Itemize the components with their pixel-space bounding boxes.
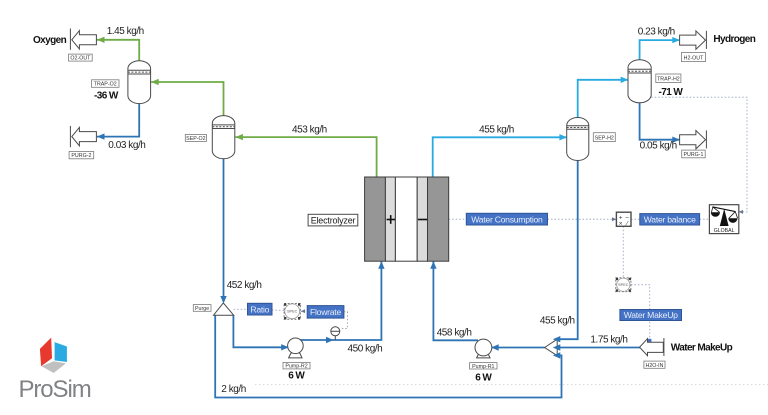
label box Electrolyzer: [308, 214, 358, 226]
label box TRAP-O2: [92, 80, 120, 88]
svg-text:Water Consumption: Water Consumption: [471, 214, 543, 224]
ProSim logo: [19, 338, 91, 403]
constraint dotted line Water Consumption to operator: [548, 218, 617, 220]
constraint dotted line SPEC to Flowrate: [300, 310, 307, 312]
svg-text:TRAP-H2: TRAP-H2: [657, 77, 680, 83]
wire: green O2 gas TRAP-O2 to O2-OUT: [97, 40, 139, 61]
arrow blue into mixer middle port: [553, 344, 561, 350]
anode plus sign: [387, 219, 395, 221]
label box Purge: [193, 305, 211, 312]
svg-text:450 kg/h: 450 kg/h: [348, 343, 383, 354]
blue label Flowrate: [307, 306, 344, 319]
svg-text:452 kg/h: 452 kg/h: [227, 280, 262, 291]
svg-text:455 kg/h: 455 kg/h: [540, 316, 575, 327]
svg-text:Ratio: Ratio: [250, 304, 269, 314]
constraint endpoint handle: [648, 339, 651, 342]
svg-text:Water MakeUp: Water MakeUp: [671, 342, 733, 353]
wire: blue 0.03 kg/h TRAP-O2 to PURG-2: [97, 104, 139, 137]
svg-text:0.03 kg/h: 0.03 kg/h: [108, 140, 145, 151]
svg-text:SEP-H2: SEP-H2: [595, 135, 614, 141]
constraint dotted line TRAP-H2 to GLOBAL (right loop): [651, 97, 747, 212]
left hanger: [712, 207, 720, 212]
svg-text:O2-OUT: O2-OUT: [70, 56, 91, 62]
SPEC module 1: [284, 303, 300, 319]
right hanger: [729, 212, 738, 219]
constraint dotted line electrolyzer to Water Consumption: [449, 218, 467, 220]
inlet icon H2O-IN: [640, 338, 664, 356]
outlet icon PURG-2: [70, 126, 96, 147]
constraint dotted line SPEC2 to Water MakeUp feed: [631, 285, 650, 341]
arrow blue into PURG-2: [97, 133, 105, 139]
svg-text:Oxygen: Oxygen: [33, 35, 67, 46]
outlet icon H2-OUT: [680, 31, 707, 50]
wire: blue Pump-R2 outlet to electrolyzer: [300, 262, 381, 341]
wire: blue 458 kg/h Pump-R1 outlet to electrolyzer: [433, 262, 478, 341]
left pan: [711, 212, 720, 217]
beam: [713, 207, 736, 212]
constraint dotted line Ratio to SPEC: [272, 309, 284, 312]
svg-text:Hydrogen: Hydrogen: [713, 34, 755, 45]
constraint dotted line operator to Water balance: [631, 218, 640, 220]
svg-text:Flowrate: Flowrate: [310, 307, 341, 317]
wire: cyan H2 gas SEP-H2 to TRAP-H2: [578, 80, 628, 118]
constraint dotted line Water balance to GLOBAL: [700, 218, 710, 220]
label box O2-OUT: [69, 54, 93, 62]
svg-text:Purge: Purge: [195, 306, 209, 312]
label box Pump-R2: [283, 362, 310, 369]
svg-text:2 kg/h: 2 kg/h: [221, 384, 246, 395]
svg-text:Pump-R2: Pump-R2: [285, 364, 307, 370]
label box H2-OUT: [681, 53, 705, 62]
arrow blue into splitter: [220, 296, 226, 304]
arrow blue into electrolyzer right: [430, 261, 436, 269]
wire: blue mixer to Pump-R1: [491, 347, 545, 349]
svg-text:Pump-R1: Pump-R1: [472, 364, 494, 370]
svg-text:453 kg/h: 453 kg/h: [292, 124, 327, 135]
svg-text:6 W: 6 W: [288, 371, 305, 382]
splitter Purge (triangle): [214, 303, 234, 315]
svg-text:GLOBAL: GLOBAL: [714, 228, 735, 234]
svg-text:SPEC: SPEC: [287, 310, 298, 314]
cathode minus sign: [418, 219, 427, 221]
label box Pump-R1: [470, 363, 497, 370]
constraint dotted line Flowrate to flow sensor: [340, 312, 347, 329]
constraint dotted line splitter to Ratio: [234, 308, 248, 310]
outlet icon O2-OUT: [70, 29, 96, 50]
svg-text:Water MakeUp: Water MakeUp: [624, 310, 678, 320]
label box PURG-2: [69, 152, 94, 160]
page boundary dotted line: [255, 384, 768, 386]
electrolyzer U1: [365, 177, 449, 261]
GLOBAL balance scale icon: [709, 205, 738, 234]
arrow blue into Pump-R2: [281, 344, 289, 350]
arrow green into O2-OUT: [97, 37, 105, 43]
SPEC module 2: [616, 278, 631, 292]
svg-text:H2O-IN: H2O-IN: [646, 363, 664, 369]
label box TRAP-H2: [656, 74, 681, 83]
vessel SEP-O2: [212, 116, 235, 159]
right pan: [728, 218, 737, 223]
pump Pump-R2: [288, 338, 304, 358]
arrow green into SEP-O2: [235, 134, 243, 140]
svg-text:0.05 kg/h: 0.05 kg/h: [640, 141, 677, 152]
svg-text:SEP-O2: SEP-O2: [186, 136, 205, 142]
svg-text:1.75 kg/h: 1.75 kg/h: [590, 334, 627, 345]
label box SEP-H2: [593, 133, 615, 142]
arrow blue into Pump-R1: [491, 344, 499, 350]
wire: cyan H2 gas TRAP-H2 to H2-OUT: [640, 40, 680, 60]
svg-text:SPEC: SPEC: [618, 283, 629, 287]
svg-text:-36 W: -36 W: [94, 91, 119, 102]
arrow blue into mixer bottom port: [553, 352, 561, 358]
vessel SEP-H2: [567, 118, 589, 161]
blue label Water balance: [640, 214, 700, 225]
constraint arrow into GLOBAL box: [739, 210, 743, 214]
svg-text:0.23 kg/h: 0.23 kg/h: [638, 26, 675, 37]
blue label Water MakeUp: [620, 310, 682, 321]
label box SEP-O2: [185, 135, 206, 142]
svg-text:PURG-2: PURG-2: [71, 153, 91, 159]
svg-text:Electrolyzer: Electrolyzer: [311, 215, 356, 225]
pedestal: [720, 209, 729, 226]
pump Pump-R1: [475, 339, 492, 358]
arrow blue mid pump-R2 outlet: [326, 337, 334, 343]
constraint dotted line operator down to SPEC2: [622, 226, 624, 277]
mixer (triangle): [545, 339, 558, 356]
wire: blue 2 kg/h splitter to mixer bottom: [215, 315, 561, 397]
wire: green 453 kg/h electrolyzer to SEP-O2: [235, 137, 376, 177]
outlet icon PURG-1: [680, 130, 707, 149]
svg-text:458 kg/h: 458 kg/h: [437, 327, 472, 338]
arrow green into TRAP-O2: [151, 79, 159, 85]
wire: blue 450 kg/h splitter to Pump-R2: [233, 315, 288, 347]
arrow cyan into H2-OUT: [672, 37, 680, 43]
wire: cyan 455 kg/h electrolyzer to SEP-H2: [433, 137, 567, 177]
constraint arrow into SPEC right side: [301, 309, 305, 313]
svg-text:ProSim: ProSim: [19, 376, 91, 403]
wire: green O2 gas SEP-O2 to TRAP-O2: [151, 82, 223, 116]
svg-text:×: ×: [619, 221, 623, 228]
wire: blue 455 kg/h SEP-H2 to mixer top: [557, 161, 578, 340]
vessel TRAP-O2: [128, 61, 151, 104]
arrow cyan into SEP-H2: [559, 134, 567, 140]
arrow blue into mixer top port: [553, 336, 561, 342]
constraint arrow into operator: [612, 217, 616, 221]
wire: blue 452 kg/h SEP-O2 to purge splitter: [223, 159, 225, 302]
svg-text:455 kg/h: 455 kg/h: [479, 125, 514, 136]
svg-text:1.45 kg/h: 1.45 kg/h: [107, 26, 144, 37]
svg-text:Water balance: Water balance: [644, 215, 696, 225]
svg-text:-71 W: -71 W: [659, 87, 684, 98]
blue label Ratio: [248, 303, 273, 315]
vessel TRAP-H2: [628, 60, 651, 103]
svg-text:6 W: 6 W: [475, 372, 492, 383]
label box H2O-IN: [644, 361, 665, 369]
arrow blue into PURG-1: [672, 137, 680, 143]
svg-text:TRAP-O2: TRAP-O2: [94, 82, 117, 88]
wire: blue 1.75 kg/h H2O-IN to mixer middle: [557, 347, 640, 349]
svg-text:H2-OUT: H2-OUT: [684, 55, 704, 61]
arrow cyan into TRAP-H2: [621, 77, 629, 83]
wire: blue 0.05 kg/h TRAP-H2 to PURG-1: [640, 103, 680, 140]
operator icon (+ - x /): [616, 212, 631, 227]
arrow blue into electrolyzer left: [378, 261, 384, 269]
blue label Water Consumption: [466, 213, 547, 225]
flow sensor on Pump-R2 outlet: [331, 327, 340, 340]
svg-text:PURG-1: PURG-1: [683, 152, 703, 158]
label box PURG-1: [682, 150, 706, 158]
